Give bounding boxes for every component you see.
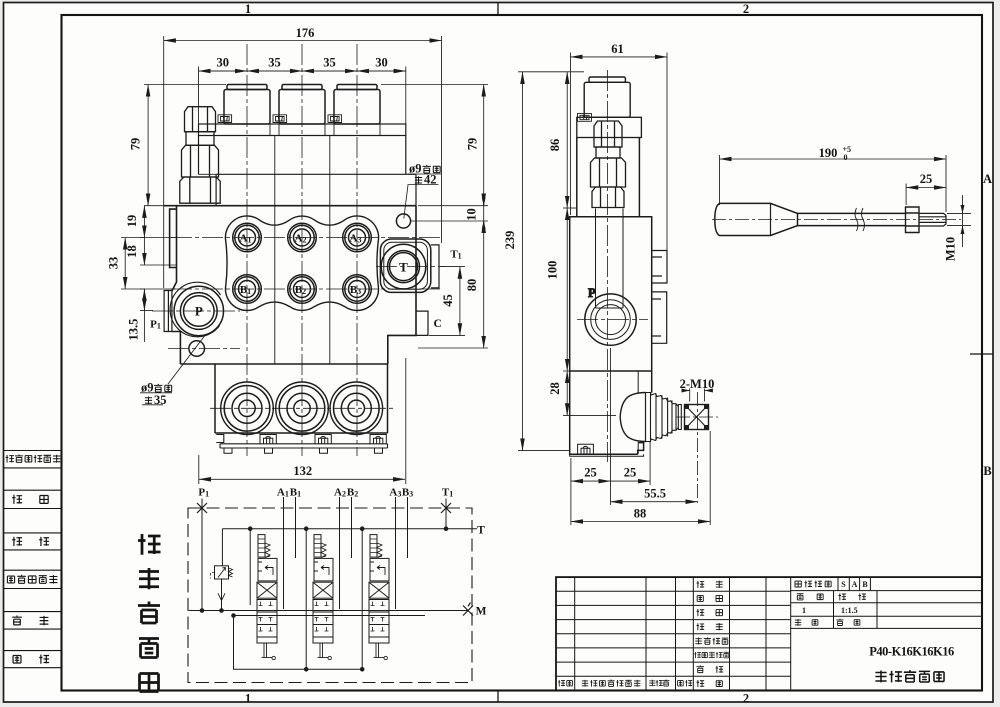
sub-block section joints bbox=[275, 136, 330, 175]
joint square X bbox=[685, 405, 709, 430]
relief valve box bbox=[215, 566, 229, 579]
base tabs bbox=[224, 448, 383, 453]
dim 79 right ext bbox=[381, 85, 488, 206]
bottom cap circle group 1 bbox=[221, 382, 274, 435]
right section row lines bbox=[791, 591, 982, 629]
label 图样标记 bbox=[795, 581, 801, 587]
zone tick right bbox=[970, 353, 993, 355]
side flange band bbox=[577, 117, 642, 137]
svg-text:79: 79 bbox=[466, 138, 480, 151]
plug X at P1 bbox=[197, 503, 207, 513]
side upper column bbox=[577, 138, 640, 217]
P1 side plate bbox=[164, 291, 172, 332]
svg-text:42: 42 bbox=[424, 173, 437, 187]
dim 13.5 ext bbox=[140, 310, 153, 312]
B3 service line bbox=[407, 497, 409, 558]
section2 feed drop bbox=[305, 529, 307, 670]
A3 service line bbox=[395, 497, 397, 609]
svg-text:35: 35 bbox=[268, 56, 281, 70]
side port P outer bbox=[585, 294, 636, 345]
sub-block below flanges bbox=[199, 136, 406, 175]
A2 service line bbox=[339, 497, 341, 609]
note ø9 top: ø9通孔 高42 bbox=[409, 162, 440, 187]
A1 service line bbox=[283, 497, 285, 609]
dim 45 ext bbox=[429, 267, 465, 336]
M bypass line bbox=[189, 610, 468, 612]
P boss bbox=[174, 286, 223, 335]
C port tab bbox=[416, 311, 428, 335]
cap 1 body bbox=[224, 90, 270, 125]
carryover line bbox=[234, 615, 426, 617]
dim 2-M10 arrows bbox=[690, 389, 705, 402]
label 旧底图总号 bbox=[7, 575, 57, 584]
vertical title 液压原理图 bbox=[138, 534, 161, 692]
B2 service line bbox=[351, 497, 353, 558]
side foot bbox=[570, 444, 644, 456]
svg-text:35: 35 bbox=[323, 56, 336, 70]
svg-text:1: 1 bbox=[245, 692, 251, 706]
cap 1 top lip bbox=[227, 85, 267, 90]
relief pilot dash bbox=[211, 573, 215, 579]
port stub T1 bbox=[445, 499, 447, 529]
svg-text:25: 25 bbox=[584, 466, 597, 480]
T return line bbox=[222, 528, 477, 530]
title block texts bbox=[558, 580, 954, 687]
svg-text:S: S bbox=[841, 580, 846, 589]
relief outlet line bbox=[221, 579, 223, 611]
zone tick top bbox=[497, 3, 499, 16]
side top cap body bbox=[584, 82, 630, 117]
relief outlet arrowhead bbox=[218, 593, 225, 600]
centerline spool 2 bbox=[301, 44, 303, 456]
svg-text:25: 25 bbox=[624, 466, 637, 480]
left margin record boxes bbox=[4, 451, 62, 668]
plug X at T1 bbox=[441, 503, 451, 513]
centerline P row bbox=[152, 310, 240, 312]
svg-text:P40-K16K16K16: P40-K16K16K16 bbox=[869, 645, 954, 659]
handle shaft break symbol bbox=[855, 208, 865, 231]
section3 feed drop bbox=[361, 529, 363, 670]
port P rings bbox=[180, 293, 217, 330]
side hex lock nut bbox=[592, 187, 624, 208]
title block outline bbox=[556, 577, 982, 690]
svg-text:M10: M10 bbox=[944, 237, 958, 261]
right section small cells bbox=[834, 577, 878, 628]
centerline spool 3 bbox=[356, 44, 358, 456]
side centerline P row bbox=[577, 319, 648, 321]
valve section 1 bbox=[257, 535, 277, 660]
dim 33 ext bbox=[121, 238, 145, 290]
svg-text:45: 45 bbox=[441, 294, 455, 307]
dim 190 ext bbox=[720, 155, 947, 212]
front view dimensions bbox=[121, 36, 488, 484]
label 工艺检查 bbox=[695, 638, 702, 645]
box miao-tu bbox=[4, 490, 62, 508]
cap 2 top lip bbox=[282, 85, 322, 90]
front view dim texts bbox=[107, 26, 480, 478]
cap 2 body bbox=[279, 90, 325, 125]
base plate bbox=[220, 444, 388, 448]
svg-text:35: 35 bbox=[154, 393, 167, 407]
box qian-zi bbox=[4, 612, 62, 630]
throttle X at M bbox=[463, 603, 473, 616]
valve section 2 bbox=[313, 535, 333, 660]
lower section outline bbox=[215, 364, 388, 433]
T boss side tab bbox=[431, 245, 439, 288]
label 标准化检查 bbox=[694, 652, 701, 658]
dim 30-35 ext lines bbox=[199, 67, 406, 485]
side centerline vertical bbox=[607, 70, 609, 462]
foot bracket 3 bbox=[370, 435, 386, 444]
body right edge and notch bbox=[388, 206, 416, 364]
foot tab left bbox=[216, 435, 224, 443]
svg-text:55.5: 55.5 bbox=[644, 487, 666, 501]
schematic port labels bbox=[198, 487, 486, 618]
svg-text:A: A bbox=[852, 580, 858, 589]
label 更改人 bbox=[649, 680, 655, 686]
label 批准 bbox=[697, 680, 705, 687]
svg-text:P: P bbox=[588, 286, 596, 300]
label 标记 (bottom row) bbox=[558, 680, 565, 686]
dim 80 line bbox=[483, 221, 485, 348]
left and middle row lines bbox=[556, 591, 791, 676]
label 日期 bbox=[678, 681, 684, 686]
port T inner bbox=[388, 251, 420, 283]
dim 30-35-35-30 arrows bbox=[199, 70, 248, 72]
dim 176 ext lines bbox=[164, 36, 442, 288]
svg-text:190: 190 bbox=[819, 146, 838, 160]
handle nut bbox=[906, 207, 920, 233]
label 共张第张 bbox=[795, 619, 801, 626]
svg-text:M: M bbox=[476, 606, 487, 618]
cover band joints bbox=[199, 174, 330, 205]
foot bracket 1 bbox=[260, 435, 276, 444]
centerline bottom circles row bbox=[210, 407, 394, 409]
svg-text:18: 18 bbox=[125, 245, 139, 258]
bolt on flange cap2 bbox=[273, 115, 287, 123]
box jie-tong-yong-jian-deng-ji bbox=[4, 451, 62, 468]
note ø9 bottom: ø9通孔 高35 bbox=[141, 381, 172, 407]
port A2 bbox=[288, 223, 317, 252]
dim 18 ext bbox=[140, 238, 176, 290]
relief feed line bbox=[221, 529, 223, 566]
cap 3 body bbox=[334, 90, 380, 125]
side top cap lip bbox=[589, 77, 625, 82]
side flange bolt bbox=[578, 114, 592, 122]
port T outer bbox=[381, 244, 426, 289]
top cover band bbox=[216, 174, 416, 205]
svg-text:2: 2 bbox=[743, 2, 749, 16]
side boss T1 bbox=[652, 251, 667, 284]
dim 86 ext bbox=[563, 207, 577, 209]
dim 100 line bbox=[566, 208, 568, 371]
svg-text:P: P bbox=[195, 304, 203, 319]
flange band under caps bbox=[199, 124, 406, 136]
dim 10 right bbox=[483, 196, 485, 230]
svg-text:30: 30 bbox=[375, 56, 388, 70]
label 比例 bbox=[838, 593, 845, 600]
label 审核 bbox=[697, 665, 704, 672]
label 校描 bbox=[12, 537, 22, 546]
centerline A row bbox=[171, 237, 440, 239]
boot dome bbox=[620, 393, 645, 442]
svg-text:80: 80 bbox=[465, 279, 479, 292]
change record columns bbox=[575, 577, 791, 690]
dim 28 line bbox=[566, 371, 568, 415]
body bottom edge bbox=[180, 363, 387, 365]
port B2 bbox=[288, 275, 317, 304]
label 日期 bbox=[13, 655, 21, 662]
bottom cap circle group 3 bbox=[330, 382, 383, 435]
port stub P1 bbox=[201, 499, 203, 516]
body left edge with chamfer bbox=[170, 206, 181, 364]
box jiu-di-tu-zong-hao bbox=[4, 570, 62, 588]
dim 55.5 line bbox=[611, 501, 698, 503]
box jiao-miao bbox=[4, 533, 62, 550]
boot pleats bbox=[646, 393, 678, 442]
svg-text:2-M10: 2-M10 bbox=[680, 377, 715, 391]
dim 18 line bbox=[143, 238, 145, 266]
label 借通用件登记 bbox=[6, 454, 61, 462]
hole ø9 top right bbox=[396, 214, 410, 228]
dim 132 ext left bbox=[198, 455, 200, 484]
svg-text:T: T bbox=[477, 525, 485, 537]
side bore rect bbox=[596, 209, 624, 309]
dim 45 line bbox=[459, 267, 461, 336]
svg-text:1:1.5: 1:1.5 bbox=[841, 606, 858, 615]
side hex mid bbox=[591, 158, 626, 187]
cap 3 top lip bbox=[337, 85, 377, 90]
dim 61 line bbox=[571, 56, 668, 58]
dim 132 line bbox=[199, 478, 405, 480]
label 数量 bbox=[797, 594, 804, 600]
label 描图 bbox=[12, 495, 22, 504]
relief valve hex collar bbox=[186, 132, 214, 146]
centerline spool 1 bbox=[246, 44, 248, 456]
bolt on flange cap3 bbox=[328, 115, 342, 123]
side port P rings bbox=[591, 300, 631, 340]
handle centerline bbox=[712, 219, 961, 221]
label 制图 bbox=[697, 596, 703, 602]
svg-text:33: 33 bbox=[107, 257, 121, 270]
body top edge bbox=[164, 205, 417, 207]
side lower block joint bbox=[637, 371, 639, 454]
relief spring bbox=[229, 568, 233, 577]
dim 10 ext bbox=[411, 220, 488, 222]
dim 88 line bbox=[571, 521, 710, 523]
svg-text:ø9: ø9 bbox=[409, 162, 422, 176]
dim 176 line bbox=[164, 40, 442, 42]
svg-text:176: 176 bbox=[296, 26, 315, 40]
label 更改内容或依据 bbox=[582, 680, 588, 687]
foot bracket 2 bbox=[315, 435, 331, 444]
svg-text:1: 1 bbox=[802, 606, 806, 615]
handle threaded end bbox=[919, 213, 946, 226]
dim 79 right line bbox=[483, 85, 485, 206]
svg-text:2: 2 bbox=[743, 692, 749, 706]
svg-text:A: A bbox=[983, 172, 992, 186]
box ri-qi bbox=[4, 651, 62, 668]
handle grip bbox=[715, 203, 798, 235]
centerline T row bbox=[376, 266, 446, 268]
title 三联多路阀 bbox=[875, 671, 886, 683]
flange joints bbox=[270, 124, 380, 136]
dim M10 arrows bbox=[947, 195, 971, 247]
port A1 bbox=[233, 223, 262, 252]
dim 13.5 line bbox=[143, 289, 145, 342]
valve section 3 bbox=[369, 535, 389, 660]
svg-text:0: 0 bbox=[844, 153, 848, 162]
side boss C bbox=[652, 292, 667, 343]
label 校对 bbox=[697, 623, 705, 630]
schematic dashed border bbox=[188, 508, 472, 683]
dim 79 left ext bbox=[144, 85, 226, 206]
side hex collar bbox=[596, 147, 620, 158]
joint axis lines bbox=[676, 392, 718, 503]
svg-text:100: 100 bbox=[546, 261, 560, 280]
dim 190 line bbox=[720, 155, 972, 247]
relief valve hex lock nut bbox=[180, 177, 220, 203]
dim 80 ext bbox=[418, 347, 488, 349]
side lower block bbox=[570, 371, 652, 454]
TITLE BLOCK bbox=[556, 577, 982, 690]
relief valve hex stack top nut bbox=[185, 107, 216, 132]
dim 33 line bbox=[124, 238, 126, 290]
handle dim texts bbox=[819, 145, 958, 261]
dim 86 line bbox=[566, 72, 568, 208]
dim 239 line bbox=[522, 72, 524, 451]
port B3 bbox=[343, 275, 372, 304]
svg-text:13.5: 13.5 bbox=[127, 319, 141, 341]
front view port labels bbox=[150, 233, 462, 331]
side hex stack nut 1 bbox=[594, 121, 622, 147]
svg-text:1: 1 bbox=[245, 2, 251, 16]
svg-text:28: 28 bbox=[548, 382, 562, 395]
port A3 bbox=[343, 223, 372, 252]
svg-text:19: 19 bbox=[125, 215, 139, 228]
dim 25 line bbox=[906, 187, 946, 189]
svg-text:C: C bbox=[434, 318, 442, 330]
dim 30-35-35-30 line bbox=[199, 70, 406, 72]
side port block bbox=[570, 217, 652, 371]
dim 61 ext bbox=[571, 53, 668, 251]
dim 19 line bbox=[143, 206, 145, 238]
junction dots bbox=[200, 526, 449, 671]
svg-text:30: 30 bbox=[216, 56, 229, 70]
side view dimensions bbox=[518, 53, 712, 526]
T boss bbox=[380, 239, 430, 292]
leader ø9 hole top bbox=[404, 174, 442, 219]
handle shaft bbox=[798, 213, 906, 225]
joint corner blocks bbox=[685, 405, 709, 430]
leader ø9 hole bottom bbox=[140, 334, 206, 405]
scalloped port boss contour bbox=[225, 216, 378, 310]
relief valve hex mid bbox=[182, 145, 219, 177]
centerline B row bbox=[171, 288, 440, 290]
dim 25 ext bbox=[905, 184, 907, 206]
svg-text:B: B bbox=[983, 464, 991, 478]
port B1 bbox=[233, 275, 262, 304]
svg-text:ø9: ø9 bbox=[141, 381, 154, 395]
svg-text:88: 88 bbox=[634, 507, 647, 521]
zone tick bottom bbox=[497, 691, 499, 703]
svg-text:132: 132 bbox=[293, 464, 312, 478]
bottom cap circle group 2 bbox=[276, 382, 329, 435]
hole ø9 below P bbox=[189, 341, 205, 357]
dim 88 ext bbox=[709, 431, 711, 525]
svg-text:10: 10 bbox=[465, 208, 479, 221]
bottom link line bbox=[234, 616, 363, 670]
svg-text:86: 86 bbox=[548, 139, 562, 152]
handle grip joint line bbox=[770, 203, 772, 235]
label 描图 bbox=[697, 609, 705, 616]
svg-text:239: 239 bbox=[503, 231, 517, 250]
side view dim texts bbox=[503, 42, 714, 521]
svg-text:79: 79 bbox=[129, 138, 143, 151]
dim 79 left line bbox=[147, 85, 149, 206]
svg-text:T: T bbox=[399, 260, 408, 275]
dim 25 ext lines bbox=[571, 348, 650, 525]
svg-text:61: 61 bbox=[611, 42, 624, 56]
svg-text:B: B bbox=[862, 580, 868, 589]
dim 25-25 line bbox=[571, 480, 611, 482]
bolt on flange cap1 bbox=[218, 115, 232, 123]
body internal section joints bbox=[275, 206, 330, 364]
section1 feed drop bbox=[249, 529, 251, 605]
joint square 2-M10 bbox=[685, 405, 709, 430]
label 签字 bbox=[12, 615, 22, 624]
boot dome base line bbox=[645, 393, 647, 442]
P1 supply line bbox=[201, 513, 203, 611]
relief valve arrow bbox=[218, 568, 226, 578]
dim 239 ext bbox=[518, 72, 584, 451]
dim 28 ext bbox=[563, 371, 616, 415]
B1 service line bbox=[295, 497, 297, 558]
centerline hole below P bbox=[168, 348, 240, 350]
svg-text:25: 25 bbox=[920, 172, 933, 186]
boot collar bbox=[678, 405, 681, 430]
label 设计 bbox=[697, 581, 705, 588]
